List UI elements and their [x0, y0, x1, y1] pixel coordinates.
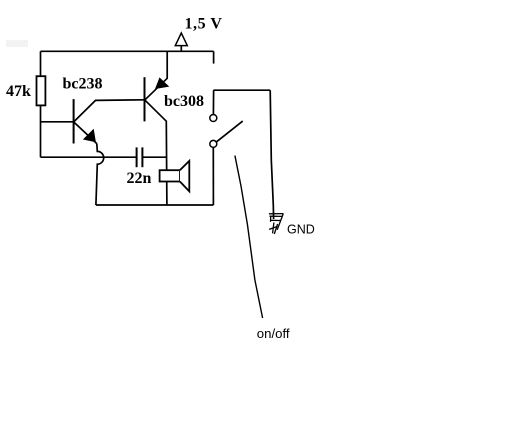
wire switch top horizontal — [213, 89, 270, 91]
svg-text:22n: 22n — [127, 170, 152, 187]
transistor Q2 emitter arrow — [155, 77, 169, 89]
svg-text:1,5 V: 1,5 V — [185, 15, 223, 32]
ground symbol scribble — [269, 214, 284, 234]
wire Q1 collector to Q2 base — [74, 100, 145, 122]
transistor Q1 bc238 base bar — [73, 99, 75, 143]
transistor Q2 bc308 base bar — [144, 77, 146, 121]
svg-text:bc308: bc308 — [164, 93, 204, 110]
svg-text:bc238: bc238 — [63, 76, 103, 93]
wire base of Q1 — [41, 121, 74, 123]
wire right vertical to GND — [270, 90, 273, 219]
resistor R1 47k body — [37, 76, 46, 105]
wire switch lower lead down — [212, 148, 214, 205]
transistor Q1 emitter arrow — [83, 129, 96, 143]
wire switch upper lead — [212, 90, 214, 114]
pointer line to on/off — [235, 156, 263, 319]
switch S1 upper contact — [210, 115, 217, 122]
wire Q2 collector down — [145, 100, 167, 205]
wire Q2 emitter up to rail — [145, 51, 167, 100]
wire Q1 emitter — [74, 122, 97, 143]
capacitor C1 left plate — [136, 147, 138, 167]
wire bottom rail — [96, 204, 213, 206]
wire feedback horizontal — [41, 156, 137, 158]
switch S1 blade — [216, 121, 243, 142]
power symbol 1,5V triangle — [175, 33, 187, 51]
wire left vertical — [40, 51, 42, 157]
svg-text:GND: GND — [287, 223, 315, 237]
speaker SP1 body — [160, 170, 180, 181]
svg-text:on/off: on/off — [257, 326, 290, 341]
wire emitter drop with hop over feedback wire — [96, 144, 104, 205]
wire capacitor right to collector line — [142, 156, 167, 158]
switch S1 lower contact — [210, 140, 217, 147]
wire switch feed stub — [213, 51, 215, 63]
speaker SP1 cone — [180, 161, 189, 192]
smudge top-left — [6, 40, 28, 47]
wire top supply rail — [41, 50, 214, 52]
svg-text:47k: 47k — [6, 83, 31, 100]
capacitor C1 right plate — [141, 147, 143, 167]
